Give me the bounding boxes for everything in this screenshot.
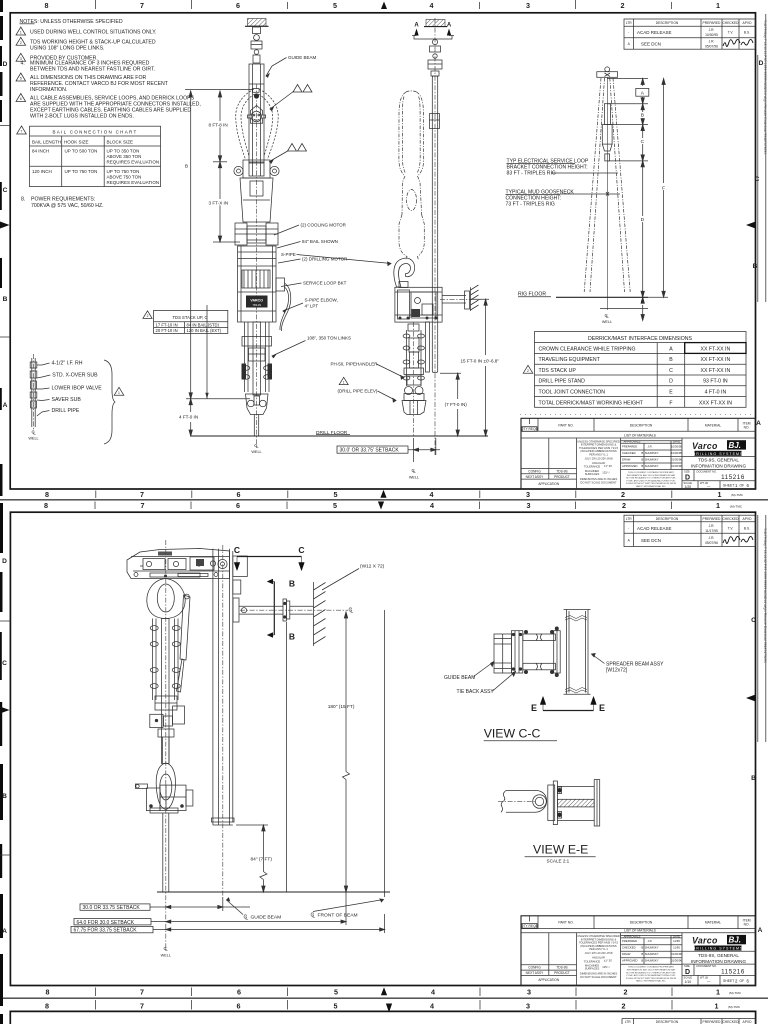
svg-text:LTR: LTR [625,1020,632,1024]
svg-text:J.R.: J.R. [709,28,715,32]
vcc labels [444,662,664,696]
svg-text:SHEET: SHEET [723,979,734,983]
svg-text:17 FT-10 IN: 17 FT-10 IN [156,322,178,327]
svg-text:64.0 FOR 30.0 SETBACK: 64.0 FOR 30.0 SETBACK [77,920,135,926]
svg-text:WELL: WELL [602,320,612,324]
svg-text:APVD: APVD [743,21,753,25]
svg-text:DOCUMENT NO.: DOCUMENT NO. [697,470,718,474]
svg-text:B. SHUMSKY: B. SHUMSKY [641,959,658,963]
sheet separator line 1 [0,499,768,501]
svg-text:2: 2 [622,1002,626,1011]
drill string pipe [30,358,37,427]
svg-text:UP TO 350 TON: UP TO 350 TON [107,149,140,154]
svg-text:DESCRIPTION: DESCRIPTION [630,921,653,925]
svg-text:A: A [2,928,7,935]
m2 15ft dim [470,299,489,436]
svg-text:3: 3 [527,501,531,510]
svg-text:1: 1 [716,501,720,510]
svg-text:3: 3 [526,490,530,499]
svg-text:125/ √: 125/ √ [602,471,610,475]
svg-text:THIS DOCUMENT CONTAINS PROPRIE: THIS DOCUMENT CONTAINS PROPRIETARY [628,966,675,969]
svg-text:6: 6 [236,1,240,10]
svg-text:3: 3 [20,57,22,61]
svg-text:PREPARED: PREPARED [703,1020,722,1024]
svg-text:NEXT ASSY: NEXT ASSY [526,971,545,975]
svg-text:NOTES: UNLESS OTHERWISE SPECIF: NOTES: UNLESS OTHERWISE SPECIFIED [20,19,123,25]
svg-text:DO NOT SCALE DOCUMENT: DO NOT SCALE DOCUMENT [580,480,617,484]
frame page1 [10,13,755,489]
svg-text:CHECKED: CHECKED [622,946,636,950]
svg-text:REQUIRES EVALUATION: REQUIRES EVALUATION [107,160,160,165]
warning triangles pair (bail lower) [270,144,307,164]
svg-text:REQUIRES EVALUATION: REQUIRES EVALUATION [107,180,160,185]
svg-text:WELL: WELL [251,450,261,454]
svg-text:PREPARED: PREPARED [703,517,722,521]
svg-text:APPLICATION: APPLICATION [538,978,560,982]
svg-text:4: 4 [431,988,435,997]
svg-text:7: 7 [140,1,144,10]
svg-text:TOLERANCE: TOLERANCE [584,465,601,469]
svg-text:5: 5 [334,490,338,499]
vcc rails [523,630,556,673]
svg-text:B: B [289,579,295,589]
svg-text:DATE: DATE [673,934,680,938]
svg-text:DERRICK/MAST INTERFACE DIMENSI: DERRICK/MAST INTERFACE DIMENSIONS [588,336,692,342]
svg-text:TOOL JOINT CONNECTION: TOOL JOINT CONNECTION [539,390,606,396]
m1 elevator [246,394,269,415]
svg-text:8: 8 [46,988,50,997]
svg-text:05/07/96: 05/07/96 [705,541,718,545]
svg-text:J.R.: J.R. [648,939,653,943]
svg-text:USED DURING WELL CONTROL SITUA: USED DURING WELL CONTROL SITUATIONS ONLY… [30,29,156,35]
svg-text:(M)-TMC: (M)-TMC [731,493,744,497]
vee tube [501,791,533,813]
svg-text:L: L [33,431,36,436]
well symbol derrick [605,313,610,319]
svg-text:DESCRIPTION: DESCRIPTION [630,424,653,428]
svg-text:1: 1 [718,490,722,499]
svg-text:5: 5 [333,1,337,10]
triangle 2 (tds stack table) [143,311,152,319]
crown block [597,67,618,77]
center arrow p1 top [381,2,387,10]
svg-text:A: A [414,23,419,29]
svg-text:10/30/95: 10/30/95 [671,451,682,455]
E-E markers [531,697,605,714]
svg-text:30.0 OR 33.75 SETBACK: 30.0 OR 33.75 SETBACK [83,905,141,911]
m2 arm to derrick [442,291,469,309]
svg-text:2: 2 [622,501,626,510]
svg-text:DRILL PIPE STAND: DRILL PIPE STAND [539,379,586,385]
triangle 2 (derrick table) [523,365,533,373]
svg-text:SHEET: SHEET [723,484,734,488]
svg-text:7: 7 [141,501,145,510]
svg-text:LOWER IBOP VALVE: LOWER IBOP VALVE [52,386,103,392]
svg-text:SIZE: SIZE [684,470,690,474]
svg-text:B: B [185,164,188,170]
svg-text:APPROVED: APPROVED [622,959,638,963]
svg-text:2: 2 [735,978,738,983]
svg-text:6: 6 [747,483,750,488]
svg-text:2: 2 [624,988,628,997]
svg-text:4: 4 [430,490,434,499]
m2 setback box [337,446,408,453]
p2 valve boxes [150,696,185,737]
svg-text:TDS-9S: TDS-9S [556,966,567,970]
svg-text:C: C [3,187,8,194]
svg-text:HOOK SIZE: HOOK SIZE [64,140,89,145]
mid arrow p1 left [0,222,10,229]
svg-text:1: 1 [343,380,345,384]
svg-text:-: - [628,31,629,35]
svg-text:8 FT-8 IN: 8 FT-8 IN [209,122,228,127]
svg-text:7: 7 [21,130,23,134]
svg-text:INFORMATION. ANY SUCH INFORMAT: INFORMATION. ANY SUCH INFORMATION MAY [627,969,676,972]
m2 phantom links/hook [399,91,424,260]
svg-text:PREPARED: PREPARED [622,939,637,943]
svg-text:B: B [289,632,295,642]
p2 hook teardrop [147,579,185,619]
svg-text:VARCO INTERNATIONAL INC.: VARCO INTERNATIONAL INC. [636,980,667,983]
svg-text:CHECKED: CHECKED [622,451,636,455]
svg-text:OF: OF [740,979,745,983]
svg-text:JULY 20½.20 20¼.8½8: JULY 20½.20 20¼.8½8 [585,456,613,460]
svg-text:MATERIAL: MATERIAL [705,424,721,428]
m2 pipehandler stack [402,324,426,415]
svg-text:1: 1 [735,483,738,488]
svg-text:1: 1 [716,1,720,10]
m2 A-A section arrows [412,23,454,40]
ruler p2 top [44,501,720,510]
svg-text:11/95: 11/95 [673,939,680,943]
p2 elevator assembly [135,784,193,813]
svg-text:A: A [669,346,673,352]
svg-text:6: 6 [237,490,241,499]
p2 guide beam column [212,549,235,825]
p2 lower shaft [163,737,170,763]
svg-text:(M)-TMC: (M)-TMC [730,505,743,509]
svg-text:APPROVED: APPROVED [622,464,638,468]
svg-text:108", 350 TON LINKS: 108", 350 TON LINKS [307,336,351,341]
svg-text:TDS STACK UP, C: TDS STACK UP, C [173,315,208,320]
m1 main housing (drilling motor) [238,246,277,322]
svg-text:LIST OF MATERIALS: LIST OF MATERIALS [624,929,657,933]
svg-text:PREPARED: PREPARED [622,445,637,449]
svg-text:5: 5 [333,501,337,510]
svg-text:ABOVE 350 TON: ABOVE 350 TON [107,154,142,159]
svg-text:J.R.: J.R. [648,445,653,449]
svg-text:—: — [707,485,711,489]
svg-text:NOT BE RELEASED TO OTHERS FOR: NOT BE RELEASED TO OTHERS FOR ANY PUR- [626,477,676,480]
svg-text:APVD: APVD [743,1020,753,1024]
p2 floor labels [251,913,358,921]
svg-text:VIEW C-C: VIEW C-C [484,727,541,741]
svg-text:D: D [641,217,645,223]
m1 top fittings [251,27,262,63]
well centerline symbol (drill string) [32,430,37,436]
svg-text:B. SHUMSKY: B. SHUMSKY [641,458,658,462]
svg-text:PREPARED: PREPARED [703,21,722,25]
m1 dim line 8FT/3FT (x=220) [213,91,240,242]
m2 derrick wall hatch [471,285,479,311]
title block middle tiny text p1 [577,439,620,484]
derrick horizontal refs [600,79,648,309]
svg-text:WELL: WELL [161,954,171,958]
svg-text:VARCO: VARCO [250,299,263,303]
svg-text:UP TO 750 TON: UP TO 750 TON [65,169,98,174]
svg-text:4: 4 [430,1,434,10]
svg-text:PRODUCT: PRODUCT [554,475,570,479]
svg-text:7: 7 [140,1002,144,1011]
svg-text:GUIDE BEAM: GUIDE BEAM [288,55,317,60]
svg-text:LIST OF MATERIALS: LIST OF MATERIALS [624,433,657,437]
svg-text:A: A [628,539,631,543]
warning triangle (ph-50) [339,377,348,384]
svg-text:NOT BE RELEASED TO OTHERS FOR: NOT BE RELEASED TO OTHERS FOR ANY PUR- [626,971,676,974]
triangle 1 (drill string) [114,387,124,395]
svg-text:STD. X-OVER SUB: STD. X-OVER SUB [52,373,98,379]
m1 service loop bracket [276,278,291,331]
frame page3 top stub [10,1011,755,1024]
svg-text:DRAW: DRAW [622,952,631,956]
mid arrow p1 right [746,222,756,229]
svg-text:8: 8 [45,1,49,10]
svg-text:B: B [751,775,756,782]
zone letters p2 left [2,558,7,935]
svg-text:NO.: NO. [744,923,750,927]
svg-text:93 FT-0 IN: 93 FT-0 IN [703,379,728,385]
svg-text:BJ.: BJ. [729,441,741,450]
svg-text:CHECKED: CHECKED [722,1020,739,1024]
svg-text:A: A [3,402,8,409]
p2 drill pipe below [163,813,169,892]
svg-text:-: - [628,527,629,531]
signatures row2 p1 [723,39,740,46]
svg-text:B: B [3,296,8,303]
svg-text:GUIDE BEAM: GUIDE BEAM [251,915,282,921]
svg-text:D: D [2,558,7,565]
svg-text:WITH 2-BOLT LUGS INSTALLED ON: WITH 2-BOLT LUGS INSTALLED ON ENDS. [30,113,134,119]
approvals text p1 [622,440,682,468]
svg-text:LTR: LTR [626,21,633,25]
vee right flange [594,780,600,826]
svg-text:B. SHUMSKY: B. SHUMSKY [641,946,658,950]
svg-text:SURFACES: SURFACES [585,472,600,476]
svg-text:180" (15 FT): 180" (15 FT) [328,704,355,710]
svg-text:D: D [685,475,690,482]
svg-text:CONFIG: CONFIG [528,470,541,474]
svg-text:E: E [641,300,644,306]
svg-text:DESCRIPTION: DESCRIPTION [656,1020,679,1024]
svg-text:01/30/96: 01/30/96 [671,464,682,468]
svg-text:CONFIG: CONFIG [528,966,541,970]
svg-text:SEE DCN: SEE DCN [641,538,661,543]
svg-text:T-4179 May 7 13:11:11 PST 1999: T-4179 May 7 13:11:11 PST 1999 99999 ACA… [763,20,767,155]
svg-text:CHECKED: CHECKED [722,21,739,25]
svg-text:115216: 115216 [721,474,745,481]
svg-text:8: 8 [44,501,48,510]
svg-text:1/10: 1/10 [685,980,692,984]
vcc right flange [554,627,561,677]
svg-text:73 FT - TRIPLES RIG: 73 FT - TRIPLES RIG [506,202,555,208]
svg-text:QTY REQD: QTY REQD [521,427,539,431]
svg-text:4: 4 [430,501,434,510]
svg-text:UP TO 500 TON: UP TO 500 TON [65,149,98,154]
svg-text:3: 3 [527,988,531,997]
svg-text:S-PIPE: S-PIPE [281,252,296,257]
p2 CL mark at arm [349,608,354,615]
svg-text:C: C [298,545,304,555]
svg-text:L: L [165,947,168,952]
svg-text:B.S.: B.S. [744,527,750,531]
svg-text:VIEW E-E: VIEW E-E [533,843,588,857]
svg-text:T.V.: T.V. [728,527,734,531]
svg-text:SIZE: SIZE [684,964,690,968]
svg-text:D: D [669,379,673,385]
m2 7ft dim [440,373,461,436]
m1 body taper [240,178,273,222]
svg-text:XX FT-XX IN: XX FT-XX IN [701,346,731,352]
anchor hatch m1 [245,19,269,27]
svg-text:C: C [669,368,673,374]
p2 column bracket + bolt [218,556,247,594]
p2 180in dim [343,612,350,892]
svg-text:BAIL CONNECTION CHART: BAIL CONNECTION CHART [52,130,137,135]
svg-text:B: B [641,113,644,119]
m1 cooling motors [235,223,278,245]
svg-text:INFORMATION.: INFORMATION. [30,87,67,93]
svg-text:TDS-9S: TDS-9S [252,304,261,307]
svg-text:T-4179 May 7 13:14:32 PST 1999: T-4179 May 7 13:14:32 PST 1999 99999 ACA… [763,528,767,664]
center arrow p2 bottom (up) [381,987,387,995]
ruler p1 bottom [45,490,722,499]
svg-text:C: C [755,176,760,183]
svg-text:±1° 30': ±1° 30' [604,464,613,468]
vcc tie back bracket [511,631,522,673]
m1 centerline [256,84,258,444]
m1 face detail (smiley plate) [248,89,266,124]
svg-text:DESCRIPTION: DESCRIPTION [656,517,679,521]
svg-text:J.R.: J.R. [709,536,715,540]
svg-text:SCALE 2:1: SCALE 2:1 [547,859,570,864]
svg-text:2: 2 [621,1,625,10]
p2 carriage [127,549,230,579]
svg-text:15 FT-0 IN ±0'-6.8": 15 FT-0 IN ±0'-6.8" [461,358,500,363]
svg-text:FRONT OF BEAM: FRONT OF BEAM [318,913,358,919]
svg-text:1: 1 [715,1002,719,1011]
svg-text:QTY REQD: QTY REQD [521,924,539,928]
svg-text:L: L [245,916,248,922]
svg-text:3: 3 [526,1,530,10]
m2 setback dim [408,438,440,462]
svg-text:DIMENSIONS ARE IN INCHES: DIMENSIONS ARE IN INCHES [580,477,618,481]
svg-text:D: D [759,60,764,67]
svg-text:INFORMATION DRAWING: INFORMATION DRAWING [691,959,747,964]
svg-text:4 FT-0 IN: 4 FT-0 IN [179,415,198,420]
vcc guide beam section [494,634,511,673]
svg-text:8: 8 [45,1002,49,1011]
svg-text:JULY 20½.20 20¼.8½8: JULY 20½.20 20¼.8½8 [585,951,613,955]
svg-text:700KVA @ 575 VAC, 50/60 HZ.: 700KVA @ 575 VAC, 50/60 HZ. [31,203,104,209]
m1 guide beam column [249,64,264,163]
m1 bail (84in, dashed) [236,89,279,159]
svg-text:2: 2 [527,369,529,373]
svg-text:E: E [599,703,605,713]
p2 bell teardrop [156,763,175,810]
svg-text:30.0' OR 33.75' SETBACK: 30.0' OR 33.75' SETBACK [340,448,400,454]
sheet separator line 2 [0,997,768,999]
svg-text:(M)-TMC: (M)-TMC [728,1005,741,1009]
svg-text:ACAD RELEASE: ACAD RELEASE [637,526,672,531]
anchor hatch m2 [424,20,447,27]
svg-text:[W12x72]: [W12x72] [606,668,628,674]
svg-text:DRILLING SYSTEMS: DRILLING SYSTEMS [693,452,744,456]
svg-text:6: 6 [237,1002,241,1011]
svg-text:20 FT-10 IN: 20 FT-10 IN [156,328,178,333]
svg-text:WELL: WELL [409,476,419,480]
p2 setback boxes [71,904,153,933]
svg-text:L: L [350,609,353,615]
p2 well symbol [164,946,169,952]
svg-text:4" LPT: 4" LPT [305,304,319,309]
svg-text:GUIDE BEAM: GUIDE BEAM [444,675,475,681]
svg-text:PART NO.: PART NO. [558,424,573,428]
svg-text:84" BAIL SHOWN: 84" BAIL SHOWN [302,239,338,244]
svg-text:TRAVELING EQUIPMENT: TRAVELING EQUIPMENT [539,357,601,363]
svg-text:T.V.: T.V. [728,31,734,35]
zone letters p2 right [751,617,763,934]
svg-text:L: L [256,444,259,449]
svg-text:B.S.: B.S. [744,31,750,35]
m1 links [242,322,272,395]
m1 drill pipe [254,415,258,437]
svg-text:C: C [2,660,7,667]
svg-text:POSE. ANY USED FOR MANUFACTURI: POSE. ANY USED FOR MANUFACTURING PUR- [626,974,675,977]
vee beam web hatched [557,786,594,820]
p2 long extension lines [286,622,288,892]
drill string labels [52,361,103,415]
svg-text:2: 2 [147,314,149,318]
svg-text:6: 6 [20,97,22,101]
svg-text:11/17/95: 11/17/95 [705,529,718,533]
svg-text:OF: OF [740,484,745,488]
svg-text:2: 2 [20,41,22,45]
vee bolts [557,787,562,818]
svg-text:8: 8 [45,490,49,499]
svg-text:F: F [669,400,672,406]
svg-text:NEXT ASSY: NEXT ASSY [526,475,545,479]
svg-text:F: F [662,185,665,191]
svg-text:DRILL PIPE: DRILL PIPE [52,408,80,414]
svg-text:(DRILL PIPE ELEV): (DRILL PIPE ELEV) [338,389,378,394]
svg-text:E: E [669,390,673,396]
svg-text:84 INCH: 84 INCH [32,149,49,154]
note triangles [16,27,26,134]
svg-text:6: 6 [237,988,241,997]
svg-text:84 IN BAIL (STD): 84 IN BAIL (STD) [187,322,220,327]
svg-text:DRAW: DRAW [622,458,631,462]
svg-text:DESCRIPTION: DESCRIPTION [656,21,679,25]
svg-text:A: A [758,927,763,934]
p2 section C markers [234,545,305,571]
svg-text:SEE DCN: SEE DCN [641,42,661,47]
closing brace [104,360,115,444]
sidebar p2 vertical scan text [758,515,767,742]
svg-text:SERVICE LOOP BKT: SERVICE LOOP BKT [303,281,347,286]
svg-text:B. SHUMSKY: B. SHUMSKY [641,952,658,956]
top ref line y=91 [185,89,252,91]
svg-text:PART NO.: PART NO. [558,921,573,925]
